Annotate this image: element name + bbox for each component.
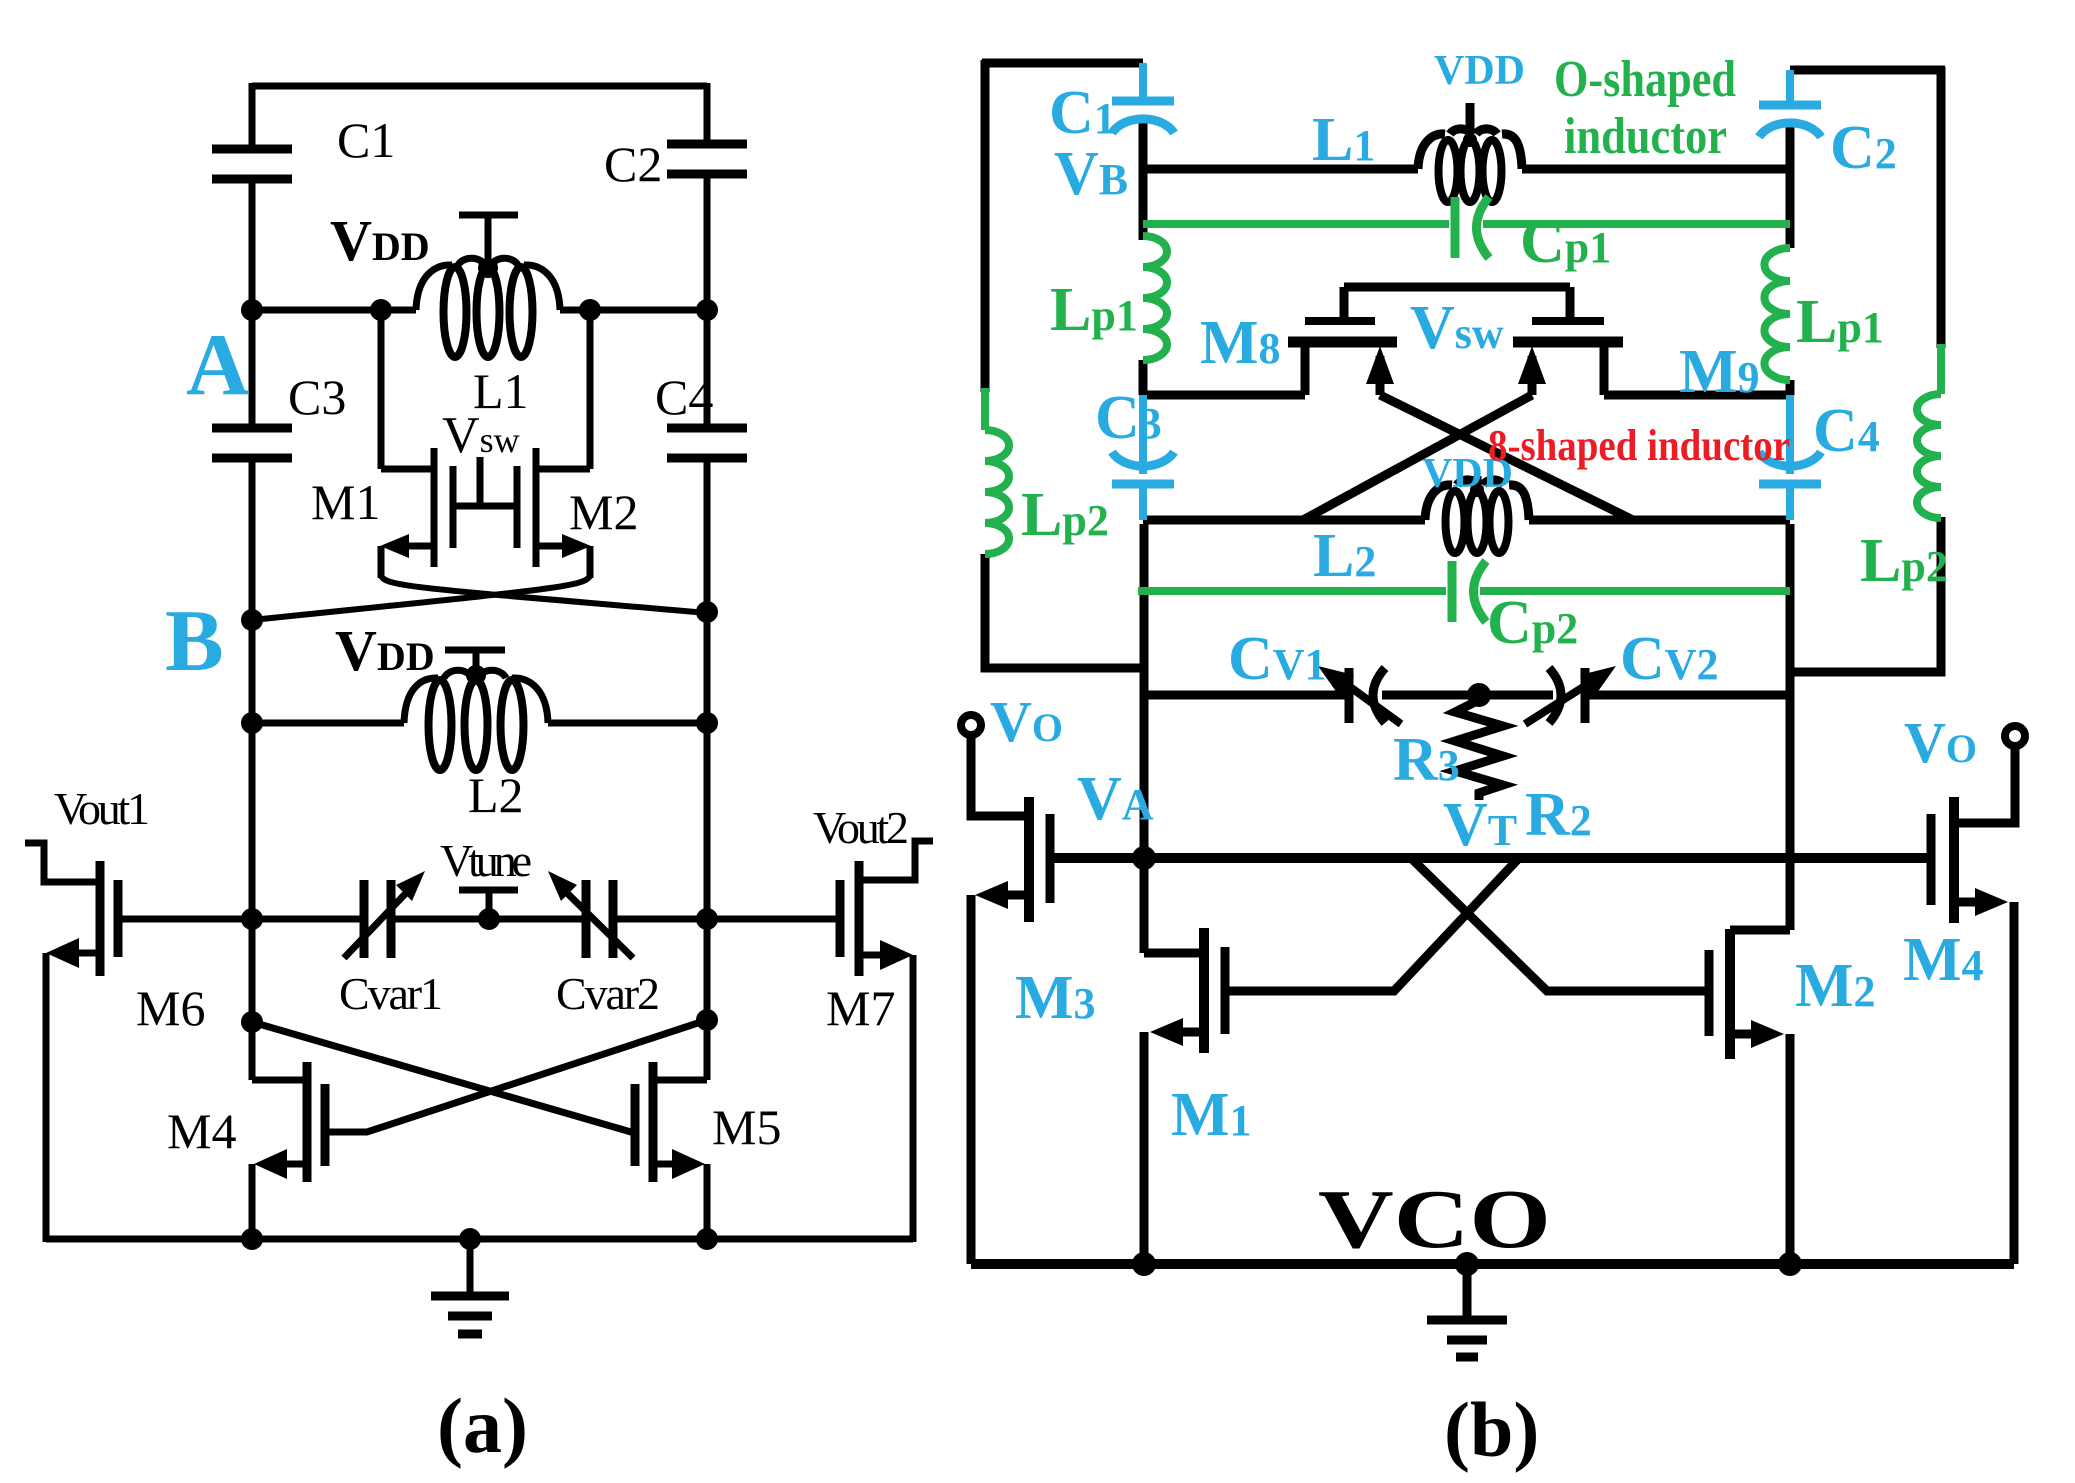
svg-text:Cvar2: Cvar2 <box>556 968 660 1019</box>
svg-text:C1: C1 <box>337 112 395 168</box>
svg-text:M7: M7 <box>826 980 895 1036</box>
svg-text:M1: M1 <box>311 474 380 530</box>
svg-text:VDD: VDD <box>1434 48 1525 94</box>
svg-text:Vout1: Vout1 <box>54 783 150 834</box>
svg-text:(b): (b) <box>1444 1386 1539 1473</box>
svg-text:8-shaped inductor: 8-shaped inductor <box>1488 421 1790 470</box>
svg-text:L1: L1 <box>473 363 529 419</box>
svg-text:M5: M5 <box>712 1099 781 1155</box>
svg-text:Vout2: Vout2 <box>813 802 909 853</box>
svg-text:Cvar1: Cvar1 <box>339 968 443 1019</box>
svg-text:Vtune: Vtune <box>440 835 532 886</box>
svg-text:A: A <box>186 317 250 414</box>
svg-text:L2: L2 <box>468 767 524 823</box>
svg-text:O-shaped: O-shaped <box>1554 51 1736 108</box>
svg-text:inductor: inductor <box>1564 108 1727 165</box>
svg-text:C3: C3 <box>288 369 346 425</box>
svg-text:M4: M4 <box>167 1103 236 1159</box>
svg-text:(a): (a) <box>437 1382 528 1469</box>
svg-text:C2: C2 <box>604 136 662 192</box>
svg-text:M6: M6 <box>136 980 205 1036</box>
svg-text:VCO: VCO <box>1318 1173 1551 1266</box>
svg-text:C4: C4 <box>655 369 713 425</box>
svg-text:M2: M2 <box>569 484 638 540</box>
svg-text:B: B <box>165 593 224 690</box>
